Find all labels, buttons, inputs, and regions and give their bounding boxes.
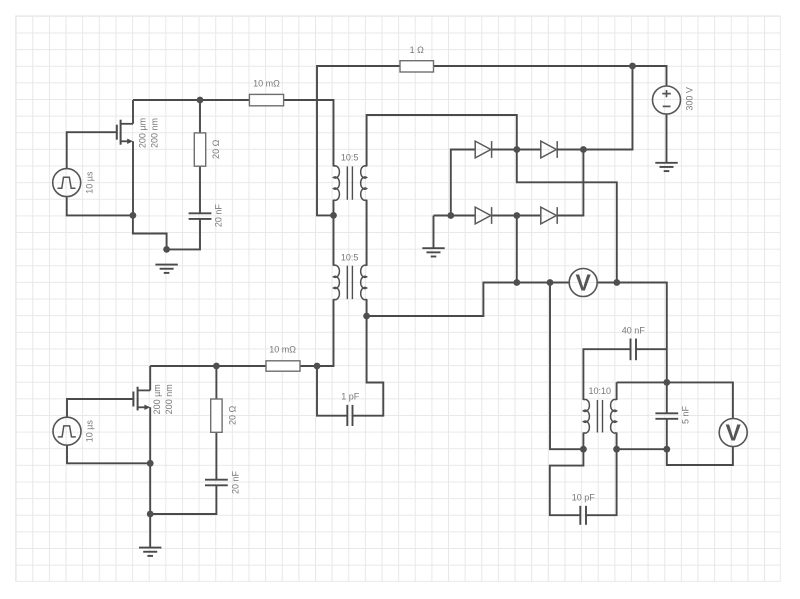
svg-text:10 pF: 10 pF [572, 492, 596, 502]
node T1T2 left tap [330, 212, 337, 219]
wire rail to R2 [215, 366, 217, 399]
node D3-D4 [513, 212, 520, 219]
wire row1 mid jog down [517, 150, 617, 283]
wire M2 drain up [149, 366, 151, 390]
wire row2 mid down to V row [516, 216, 518, 283]
wire riser x550 [550, 283, 583, 450]
resistor 10mohm upper [249, 94, 283, 105]
wire 10pF right [586, 449, 617, 515]
wire T2 left bottom to node [317, 299, 334, 366]
voltmeter V1 [569, 269, 597, 297]
svg-text:20 Ω: 20 Ω [228, 406, 238, 426]
diode D4 [541, 207, 557, 224]
transistor M1 nmos [117, 120, 133, 145]
svg-text:1 pF: 1 pF [341, 392, 360, 402]
node T3 left bottom [580, 446, 587, 453]
wire 300V to ground [666, 114, 668, 163]
wire M1 drain up to rail [132, 100, 134, 124]
wire D4 cathode riser [557, 150, 583, 216]
node T3 rail [663, 379, 670, 386]
wire D3 cathode to row2 mid [492, 215, 541, 217]
wire G2 stem [433, 216, 435, 249]
svg-text:10 mΩ: 10 mΩ [253, 79, 280, 89]
svg-text:200 nm: 200 nm [149, 118, 159, 148]
svg-text:200 µm: 200 µm [138, 118, 148, 148]
wire T3 secondary rail to V2 [617, 382, 733, 418]
ground G3 [655, 163, 677, 171]
wire 40nF right [636, 348, 667, 350]
wire T3 left pin bottom [582, 433, 584, 450]
wire M2 source down [149, 407, 151, 514]
node D2 out [580, 146, 587, 153]
pulse source V1 10us [53, 169, 81, 197]
svg-text:200 nm: 200 nm [164, 384, 174, 414]
wire G4 stem [149, 514, 151, 548]
wire 40nF left to T3 [583, 349, 630, 400]
wire C 20nF bottom to ground node [167, 219, 200, 250]
node T3 right bottom [613, 446, 620, 453]
svg-text:20 nF: 20 nF [231, 470, 241, 494]
wire node to V row [367, 283, 517, 317]
wire diode row1 left riser [451, 150, 475, 216]
node rail-R20 [197, 97, 204, 104]
wire 1pF left [317, 366, 347, 416]
capacitor 5nF [655, 413, 678, 419]
svg-text:40 nF: 40 nF [622, 325, 646, 335]
wire M1 source down [132, 141, 134, 215]
diode D2 [541, 141, 557, 158]
wire 40nF node down [666, 349, 668, 382]
node T2 right bottom [363, 313, 370, 320]
wire V row left [517, 282, 570, 284]
svg-text:10:5: 10:5 [341, 253, 359, 263]
wire lower rail [150, 365, 266, 367]
node V row a [513, 279, 520, 286]
svg-text:1 Ω: 1 Ω [410, 45, 425, 55]
svg-text:5 nF: 5 nF [681, 405, 691, 424]
wire 5nF top [666, 382, 668, 413]
transistor M2 nmos [133, 387, 150, 411]
wire R2 to C2 [215, 432, 217, 479]
capacitor 10pF [580, 506, 586, 525]
wire M1 source jog to ground node [133, 215, 167, 249]
capacitor 20nF lower [205, 480, 228, 486]
wire top rail riser and 1ohm left [317, 66, 400, 215]
svg-text:10 µs: 10 µs [84, 171, 94, 194]
transformer T1 10:5 [334, 166, 367, 200]
wire pulse2 bottom [67, 445, 150, 464]
wire top-left rail [133, 99, 249, 101]
voltmeter V2 [719, 419, 747, 447]
node V row b [547, 279, 554, 286]
resistor 1ohm [400, 61, 434, 72]
ground G1 [155, 265, 177, 273]
ground G2 [422, 248, 444, 256]
wire R 20ohm to C 20nF [199, 166, 201, 213]
svg-text:10 µs: 10 µs [84, 420, 94, 443]
wire T1 right top to diode row1 [367, 115, 517, 166]
node V row c [613, 279, 620, 286]
wire pulse1 bottom [67, 196, 133, 215]
diode D1 [475, 141, 491, 158]
node top rail right [629, 63, 636, 70]
svg-text:20 Ω: 20 Ω [211, 139, 221, 159]
capacitor 20nF upper [189, 213, 212, 219]
wire bottom rail right [617, 448, 667, 450]
resistor 20ohm upper [194, 133, 205, 166]
svg-text:V: V [726, 420, 742, 446]
node G4 rail [147, 511, 154, 518]
wire 10mohm to T1 left top [284, 100, 334, 166]
wire 1pF right jog [353, 316, 384, 416]
wire T1 left pin through junction to T2 [333, 200, 335, 266]
wire pulse1 top to M1 gate [67, 132, 117, 169]
wire D2 out junction to top rail [583, 66, 632, 150]
wire V row right [597, 283, 667, 350]
node D1-D2 [513, 146, 520, 153]
node G1 [163, 246, 170, 253]
wire 10mohm2 to node [300, 365, 317, 367]
wire ground to row2 left [434, 215, 476, 217]
ground G4 [139, 548, 161, 556]
resistor 20ohm lower [211, 399, 222, 432]
wire 1ohm right to 300V [434, 66, 667, 86]
wire T2 right bottom to node [366, 299, 368, 316]
transformer T2 10:5 [334, 265, 367, 299]
svg-text:300 V: 300 V [684, 87, 694, 111]
diode D3 [475, 207, 491, 224]
node 5nF bottom [663, 446, 670, 453]
svg-text:20 nF: 20 nF [214, 204, 224, 228]
node row2 left [447, 212, 454, 219]
transformer T3 10:10 [583, 399, 616, 433]
wire 5nF bottom [666, 419, 668, 449]
wire D2 cathode to out junction [557, 149, 583, 151]
svg-text:10:5: 10:5 [341, 153, 359, 163]
svg-text:V: V [576, 270, 592, 296]
svg-text:200 µm: 200 µm [152, 384, 162, 414]
wire D1 cathode to mid junction [492, 149, 541, 151]
wire pulse2 top to M2 gate [67, 399, 133, 418]
wire T3 right pin bottom [616, 433, 618, 450]
node lower rail-R20 [213, 363, 220, 370]
pulse source V2 10us [53, 417, 81, 445]
wire C2 to ground rail [150, 485, 216, 514]
wire T1 right bottom to T2 right top [366, 200, 368, 266]
wire 10pF left jog [550, 449, 584, 515]
resistor 10mohm lower [266, 361, 300, 371]
node M1 source [130, 212, 137, 219]
capacitor 1pF [347, 405, 352, 426]
svg-text:10:10: 10:10 [589, 386, 612, 396]
wire V2 bottom [667, 446, 733, 465]
capacitor 40nF [631, 339, 637, 361]
node M2 source [147, 460, 154, 467]
source 300V [653, 86, 681, 114]
wire T3 right pin top [616, 382, 618, 400]
wire rail to R 20ohm [199, 100, 201, 133]
svg-text:10 mΩ: 10 mΩ [269, 345, 296, 355]
node lower 10mohm out [314, 363, 321, 370]
